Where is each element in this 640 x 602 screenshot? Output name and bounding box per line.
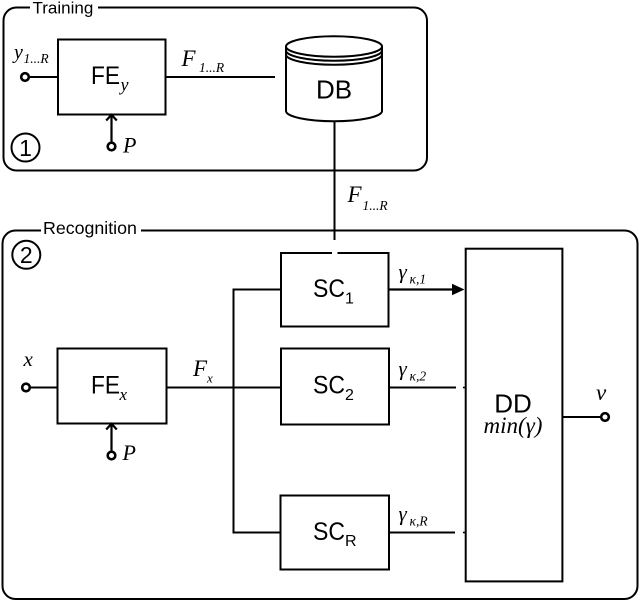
svg-text:FE: FE bbox=[91, 62, 120, 90]
label gamma k1 bbox=[399, 260, 427, 287]
label Fx bbox=[192, 356, 213, 386]
svg-text:F: F bbox=[347, 182, 363, 207]
wire SC1 to DD bbox=[389, 284, 465, 296]
svg-text:v: v bbox=[596, 380, 607, 405]
block FEy bbox=[58, 40, 166, 115]
wire DD output bbox=[562, 416, 600, 418]
block DD bbox=[466, 249, 563, 582]
badge 2 bbox=[12, 241, 40, 269]
label F1R training bbox=[181, 46, 225, 75]
svg-text:κ,1: κ,1 bbox=[410, 272, 427, 287]
label gamma kR bbox=[399, 502, 429, 529]
svg-text:γ: γ bbox=[399, 357, 408, 381]
svg-text:DB: DB bbox=[316, 75, 352, 105]
frame Training bbox=[4, 8, 428, 171]
svg-text:1: 1 bbox=[345, 291, 354, 308]
svg-text:SC: SC bbox=[313, 372, 345, 400]
frame Recognition bbox=[3, 231, 638, 600]
wire DB down bbox=[334, 121, 336, 240]
svg-text:γ: γ bbox=[399, 260, 408, 284]
svg-text:SC: SC bbox=[313, 275, 345, 303]
svg-text:2: 2 bbox=[20, 242, 33, 268]
svg-text:x: x bbox=[23, 347, 34, 371]
wire FEy to DB bbox=[166, 76, 276, 78]
svg-text:R: R bbox=[345, 533, 357, 550]
svg-text:Training: Training bbox=[33, 0, 94, 17]
label gamma k2 bbox=[399, 357, 427, 384]
svg-text:Recognition: Recognition bbox=[43, 218, 137, 238]
block SC2 bbox=[281, 349, 389, 425]
wire SC2 to DD bbox=[389, 387, 466, 389]
notch SC1 top bbox=[332, 252, 338, 255]
svg-text:F: F bbox=[192, 356, 208, 381]
wire y input bbox=[30, 76, 59, 78]
terminal P recognition bbox=[108, 452, 116, 460]
badge 1 bbox=[12, 134, 40, 162]
svg-text:γ: γ bbox=[399, 502, 408, 526]
terminal x bbox=[22, 384, 30, 392]
svg-text:FE: FE bbox=[91, 372, 120, 400]
svg-text:1...R: 1...R bbox=[24, 51, 50, 66]
svg-text:x: x bbox=[119, 385, 128, 404]
svg-text:F: F bbox=[181, 46, 197, 71]
svg-text:P: P bbox=[122, 133, 136, 158]
wire SC1 input bbox=[233, 289, 282, 291]
terminal P training bbox=[108, 143, 116, 151]
block FEx bbox=[58, 349, 167, 424]
wire SCR to DD bbox=[389, 532, 466, 534]
svg-text:1: 1 bbox=[19, 135, 32, 161]
svg-text:y: y bbox=[119, 75, 129, 95]
svg-text:x: x bbox=[206, 371, 213, 386]
block SC1 bbox=[281, 253, 389, 327]
label SC2 bbox=[313, 372, 354, 405]
terminal y1R bbox=[21, 73, 29, 81]
svg-text:min(γ): min(γ) bbox=[484, 413, 543, 438]
label F1R bus bbox=[347, 182, 389, 213]
label SCR bbox=[313, 518, 357, 550]
label FEx bbox=[91, 372, 128, 404]
svg-text:κ,2: κ,2 bbox=[410, 369, 427, 384]
svg-text:κ,R: κ,R bbox=[410, 514, 429, 529]
wire branch vertical bbox=[233, 290, 235, 533]
wire P arrow training bbox=[106, 115, 117, 142]
label y1R bbox=[12, 42, 49, 66]
title Recognition bbox=[41, 218, 141, 238]
database DB bbox=[286, 36, 382, 121]
block SCR bbox=[281, 496, 390, 570]
svg-text:1...R: 1...R bbox=[199, 60, 225, 75]
svg-text:SC: SC bbox=[313, 518, 345, 546]
wire FEx output bbox=[167, 387, 282, 389]
svg-text:1...R: 1...R bbox=[363, 198, 389, 213]
svg-text:P: P bbox=[122, 440, 136, 465]
label SC1 bbox=[313, 275, 354, 308]
wire SCR input bbox=[233, 532, 281, 534]
svg-text:y: y bbox=[12, 42, 23, 64]
title Training bbox=[30, 0, 98, 17]
terminal v bbox=[601, 413, 609, 421]
svg-text:2: 2 bbox=[345, 387, 354, 404]
wire P arrow recognition bbox=[106, 424, 117, 451]
label FEy bbox=[91, 62, 129, 95]
wire x input bbox=[31, 387, 58, 389]
